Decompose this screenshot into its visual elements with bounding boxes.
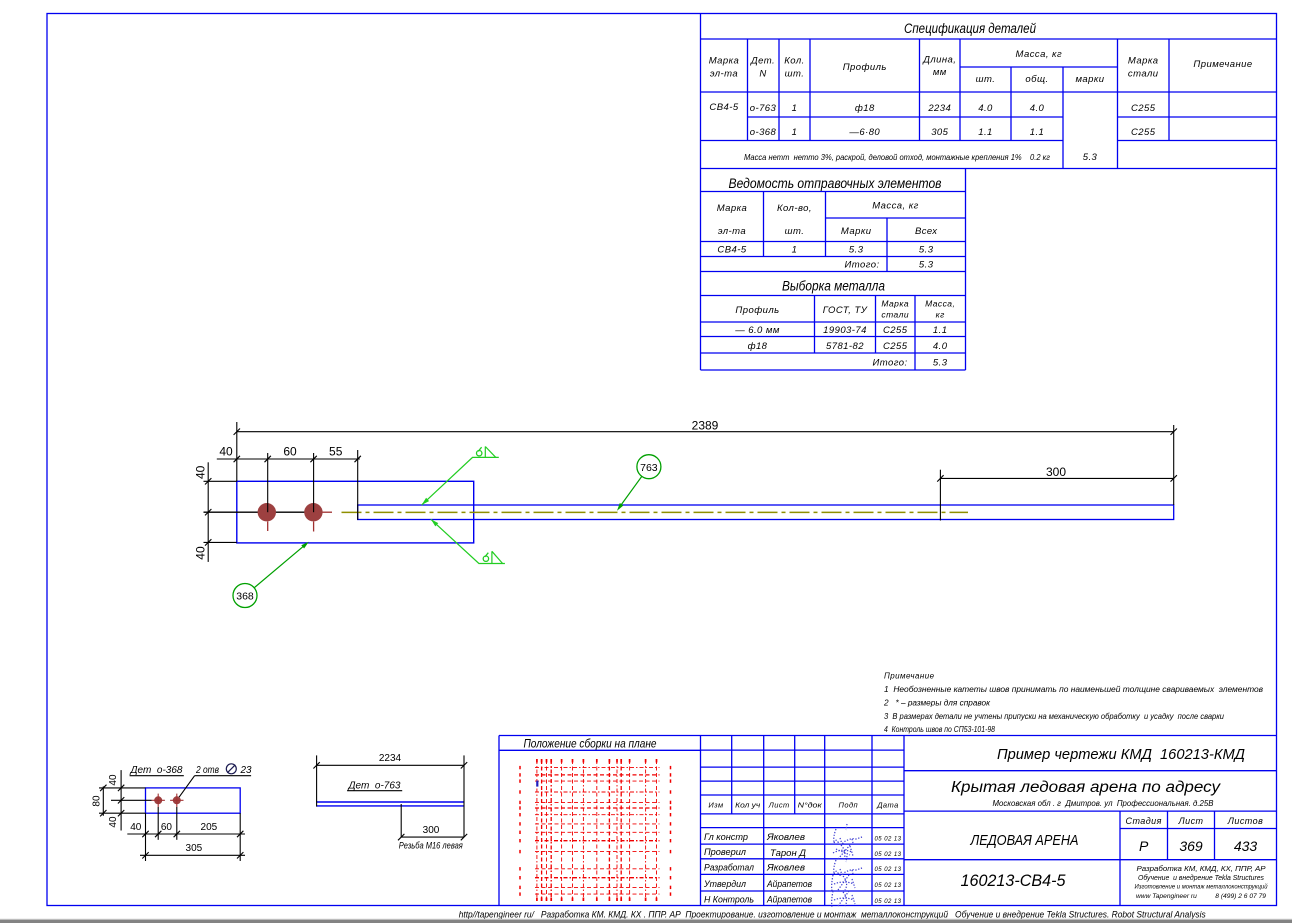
detail o-368: plate outline [146, 788, 241, 813]
detail o-368: dimension chain 40-60-205 - line ticks texts [127, 833, 245, 835]
svg-text:мм: мм [933, 67, 947, 78]
svg-text:кг: кг [936, 310, 945, 320]
svg-text:1.1: 1.1 [933, 325, 948, 336]
weld symbol upper - fillet flag and size 6 [484, 447, 486, 458]
main view: centerline of rod [342, 511, 969, 513]
svg-text:2389: 2389 [692, 419, 719, 433]
svg-text:433: 433 [1234, 838, 1258, 854]
svg-text:Марка: Марка [717, 203, 748, 214]
table: Ведомость отправочных элементов - grid lines [700, 169, 702, 272]
svg-text:Подп: Подп [838, 801, 858, 810]
svg-text:5.3: 5.3 [849, 245, 864, 256]
svg-text:Айрапетов: Айрапетов [766, 879, 812, 889]
svg-text:305: 305 [186, 843, 203, 854]
plan box: blue assembly position mark [536, 781, 538, 787]
svg-text:4.0: 4.0 [978, 103, 993, 114]
svg-text:Кол.: Кол. [784, 56, 804, 67]
svg-text:23: 23 [240, 765, 252, 776]
svg-text:300: 300 [423, 825, 440, 836]
svg-text:шт.: шт. [976, 74, 996, 85]
svg-text:40: 40 [194, 465, 208, 479]
svg-text:40: 40 [108, 816, 119, 828]
bottom window bar [0, 919, 1292, 920]
svg-text:80: 80 [92, 795, 103, 807]
plan box: red building grid [536, 760, 538, 898]
svg-text:Профиль: Профиль [735, 305, 779, 316]
svg-text:Айрапетов: Айрапетов [766, 895, 812, 905]
svg-text:шт.: шт. [785, 69, 805, 80]
svg-text:763: 763 [640, 462, 658, 474]
svg-text:Положение сборки на плане: Положение сборки на плане [524, 739, 657, 751]
svg-text:1.1: 1.1 [1030, 127, 1045, 138]
svg-text:шт.: шт. [785, 226, 805, 237]
svg-text:Примечание: Примечание [1193, 59, 1252, 70]
detail o-368: hole 2 [173, 796, 181, 804]
title block: signature scribbles [832, 824, 862, 907]
svg-text:05 02 13: 05 02 13 [875, 837, 902, 843]
svg-text:368: 368 [236, 591, 254, 603]
svg-text:Лист: Лист [768, 801, 790, 810]
main view: plate outline (poz.368) [237, 481, 474, 543]
svg-text:Длина,: Длина, [922, 55, 956, 66]
svg-text:стали: стали [881, 310, 909, 320]
svg-text:С255: С255 [1131, 103, 1156, 114]
svg-text:Н Контроль: Н Контроль [704, 895, 754, 905]
svg-text:5.3: 5.3 [919, 260, 934, 271]
svg-text:Резьба М16 левая: Резьба М16 левая [399, 841, 463, 851]
svg-text:60: 60 [161, 822, 173, 833]
part balloon 368 - circle and number [233, 584, 257, 608]
part balloon 763 - leader with arrow [619, 476, 642, 508]
svg-text:5.3: 5.3 [933, 358, 948, 369]
svg-text:160213-СВ4-5: 160213-СВ4-5 [961, 872, 1067, 890]
svg-text:Дет о-368: Дет о-368 [129, 765, 182, 776]
detail o-368: vertical dimension 40/40 - line ticks texts [120, 770, 122, 830]
svg-text:Пример чертежи КМД 160213-КМД: Пример чертежи КМД 160213-КМД [997, 746, 1245, 763]
table: Спецификация деталей - grid lines [700, 14, 702, 169]
svg-text:о-368: о-368 [750, 127, 777, 138]
svg-text:5.3: 5.3 [919, 245, 934, 256]
svg-text:Р: Р [1139, 838, 1149, 854]
svg-text:С255: С255 [883, 341, 908, 352]
svg-text:05 02 13: 05 02 13 [875, 883, 902, 889]
svg-text:эл-та: эл-та [718, 226, 746, 237]
main view: hole 1 (d23) [258, 503, 276, 521]
svg-text:60: 60 [283, 445, 297, 459]
svg-text:369: 369 [1179, 838, 1203, 854]
svg-text:1 Необозненные катеты швов пр: 1 Необозненные катеты швов принимать по … [884, 685, 1263, 694]
svg-text:Примечание: Примечание [884, 672, 935, 681]
svg-text:40: 40 [108, 774, 119, 786]
svg-text:— 6.0 мм: — 6.0 мм [734, 325, 780, 336]
svg-text:Кол-во,: Кол-во, [777, 203, 812, 214]
detail o-368: dimension 305 - line ticks text [140, 854, 245, 856]
svg-text:4.0: 4.0 [1030, 103, 1045, 114]
svg-text:Масса, кг: Масса, кг [1016, 49, 1063, 60]
svg-text:305: 305 [931, 127, 948, 138]
main view: hole crosshair horizontal line [204, 511, 319, 513]
svg-text:Крытая ледовая арена по адресу: Крытая ледовая арена по адресу [951, 779, 1221, 796]
svg-text:Всех: Всех [915, 226, 938, 237]
svg-text:Лист: Лист [1178, 816, 1204, 826]
svg-text:ЛЕДОВАЯ АРЕНА: ЛЕДОВАЯ АРЕНА [970, 833, 1079, 849]
detail o-763: rod profile (two blue lines) [317, 801, 464, 803]
title block: outer and section lines [700, 736, 702, 906]
svg-text:4.0: 4.0 [933, 341, 948, 352]
svg-text:ф18: ф18 [748, 341, 768, 352]
plan box: Положение сборки на плане frame [498, 736, 500, 906]
svg-text:Марка: Марка [881, 299, 909, 309]
dimension vertical 40/40 - line, extension lines, ticks [207, 462, 209, 562]
svg-text:1: 1 [792, 127, 798, 138]
svg-text:Спецификация деталей: Спецификация деталей [904, 21, 1036, 36]
svg-text:Масса, кг: Масса, кг [872, 201, 919, 212]
svg-text:марки: марки [1075, 74, 1104, 85]
svg-text:Московская обл . г Дмитров. у: Московская обл . г Дмитров. ул Профессио… [993, 798, 1214, 808]
main view: hole 2 (d23) [304, 503, 322, 521]
svg-text:эл-та: эл-та [710, 69, 738, 80]
part balloon 763 - circle and number [637, 455, 661, 479]
svg-text:Профиль: Профиль [843, 62, 887, 73]
svg-text:Разработка КМ, КМД, КХ, ППР, А: Разработка КМ, КМД, КХ, ППР, АР [1137, 864, 1266, 873]
detail o-763: dimension 2234 - line ext ticks text [317, 764, 464, 766]
svg-text:N°док: N°док [798, 801, 823, 810]
svg-text:205: 205 [201, 822, 218, 833]
svg-text:Листов: Листов [1227, 816, 1263, 826]
table: Выборка металла - grid lines [700, 272, 702, 371]
svg-text:—6·80: —6·80 [848, 127, 880, 138]
svg-text:2234: 2234 [379, 753, 402, 764]
svg-text:Дата: Дата [876, 801, 899, 810]
svg-text:Итого:: Итого: [872, 358, 907, 369]
svg-text:Масса нетт нетто 3%, раскрой,: Масса нетт нетто 3%, раскрой, деловой от… [744, 153, 1050, 162]
svg-text:Дет о-763: Дет о-763 [347, 781, 400, 792]
svg-text:ГОСТ, ТУ: ГОСТ, ТУ [823, 305, 868, 316]
svg-text:Разработал: Разработал [704, 863, 754, 873]
plan box: red tick marks around grid [536, 759, 538, 763]
svg-text:Марка: Марка [709, 56, 740, 67]
main view: thread boundary line at 300 from end [939, 470, 941, 521]
dimension chain 40-60-55 - line, extension lines, ticks [217, 458, 360, 460]
svg-text:Тарон Д: Тарон Д [770, 848, 806, 858]
svg-text:общ.: общ. [1025, 74, 1048, 85]
svg-text:1: 1 [792, 103, 798, 114]
weld symbol lower - leader with arrow [431, 519, 505, 563]
title block: signature table grid [701, 749, 905, 751]
detail o-763: thread boundary line [400, 804, 402, 837]
svg-text:Проверил: Проверил [704, 847, 746, 857]
weld symbol lower - fillet flag and size 6 [491, 551, 493, 563]
svg-text:стали: стали [1128, 69, 1159, 80]
svg-text:Масса,: Масса, [925, 299, 955, 309]
detail o-368: hole 1 [154, 796, 162, 804]
svg-text:300: 300 [1046, 465, 1066, 479]
svg-text:С255: С255 [1131, 127, 1156, 138]
svg-text:40: 40 [130, 822, 142, 833]
svg-text:3 В размерах детали не учтены: 3 В размерах детали не учтены припуски н… [884, 712, 1225, 721]
svg-text:40: 40 [194, 546, 208, 560]
weld symbol upper - leader with arrow [422, 457, 499, 505]
title block: right part section lines [904, 770, 1277, 772]
svg-text:05 02 13: 05 02 13 [875, 867, 902, 873]
svg-text:Кол уч: Кол уч [735, 801, 760, 810]
svg-text:Гл констр: Гл констр [704, 832, 748, 842]
svg-text:С255: С255 [883, 325, 908, 336]
svg-text:Дет.: Дет. [750, 56, 775, 67]
svg-text:1.1: 1.1 [978, 127, 993, 138]
main view: rod outline (poz.763) [358, 505, 1174, 520]
svg-text:Ведомость отправочных элементо: Ведомость отправочных элементов [729, 176, 942, 191]
dimension 2389 - line, extension lines, ticks, text [237, 431, 1174, 433]
svg-text:Итого:: Итого: [844, 260, 879, 271]
svg-text:Обучение и внедрение Tekla St: Обучение и внедрение Tekla Structures [1138, 874, 1264, 882]
svg-text:Яковлев: Яковлев [766, 832, 806, 842]
svg-text:2 * – размеры для справок: 2 * – размеры для справок [883, 699, 991, 708]
detail o-368: vertical dimension 80 - line ticks text [102, 786, 104, 815]
svg-text:Выборка металла: Выборка металла [782, 279, 885, 294]
svg-text:www Tapengineer ru 8: www Tapengineer ru 8 (499) 2 6 07 79 [1136, 893, 1266, 900]
dimension 300 (thread length) - line, ticks, text [940, 477, 1173, 479]
part balloon 368 - leader with arrow [254, 543, 307, 587]
svg-text:5781-82: 5781-82 [826, 341, 864, 352]
detail o-368: horizontal extension lines [99, 787, 146, 789]
svg-text:Марка: Марка [1128, 56, 1159, 67]
svg-text:2 отв: 2 отв [195, 765, 219, 776]
svg-text:05 02 13: 05 02 13 [875, 852, 902, 858]
svg-text:СВ4-5: СВ4-5 [709, 102, 738, 113]
svg-text:05 02 13: 05 02 13 [875, 899, 902, 905]
svg-text:4 Контроль швов по СП53-101-9: 4 Контроль швов по СП53-101-98 [884, 725, 995, 734]
svg-text:40: 40 [219, 445, 233, 459]
svg-text:Изготовление и монтаж металлок: Изготовление и монтаж металлоконструкций [1135, 883, 1268, 891]
svg-text:о-763: о-763 [750, 103, 777, 114]
svg-text:Марки: Марки [841, 226, 872, 237]
svg-text:19903-74: 19903-74 [823, 325, 867, 336]
svg-text:1: 1 [792, 245, 798, 256]
main view: hole crosshair red stubs [318, 511, 332, 513]
svg-text:2234: 2234 [927, 103, 951, 114]
svg-text:5.3: 5.3 [1083, 152, 1098, 163]
svg-text:Изм: Изм [708, 801, 723, 810]
svg-text:Яковлев: Яковлев [766, 863, 806, 873]
svg-text:55: 55 [329, 445, 343, 459]
detail o-763: dimension 300 - line ticks text [401, 836, 464, 838]
svg-text:N: N [759, 69, 766, 80]
svg-text:ф18: ф18 [855, 103, 875, 114]
svg-text:СВ4-5: СВ4-5 [717, 245, 746, 256]
svg-text:Утвердил: Утвердил [703, 879, 746, 889]
svg-text:Стадия: Стадия [1126, 816, 1162, 826]
